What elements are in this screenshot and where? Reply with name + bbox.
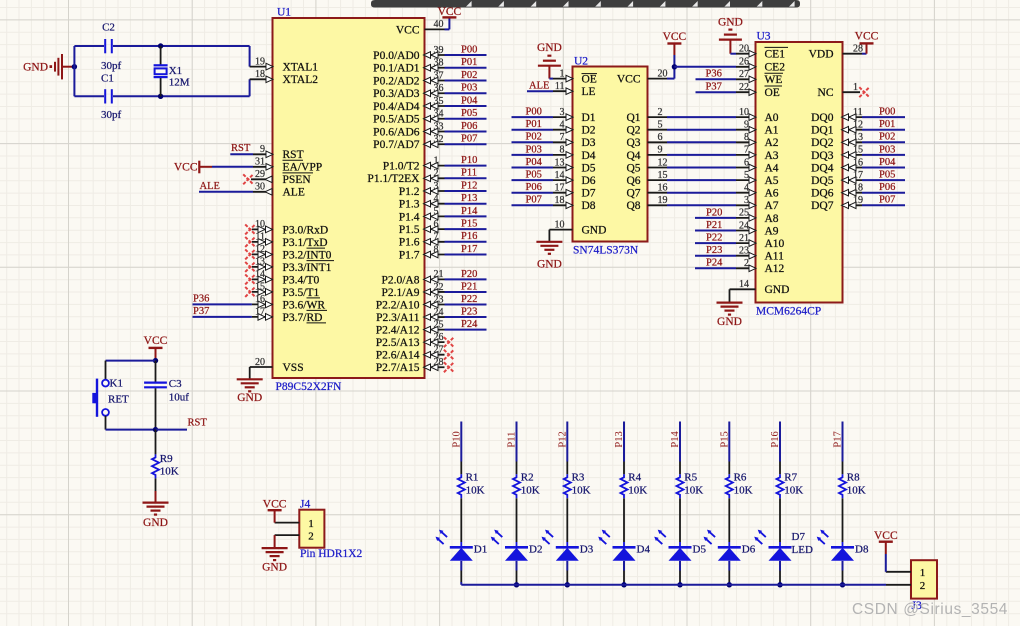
U2 pin 2 Q1 [626,107,667,124]
wire D3 to bus [566,561,568,585]
svg-text:P02: P02 [526,132,542,143]
svg-text:35: 35 [434,96,444,107]
wire R4 to D4 [623,498,625,547]
U1 pin 20 VSS [250,357,304,374]
wire VCC to U3 CE2 [674,66,736,68]
capacitor C1 30pf [101,73,122,122]
svg-text:12: 12 [853,120,863,131]
U1 pin 40 VCC [396,19,445,36]
svg-text:40: 40 [434,19,444,30]
svg-text:D5: D5 [582,162,596,174]
U1 pin 28 P2.7/A15 [376,357,445,374]
svg-text:P2.7/A15: P2.7/A15 [376,362,420,374]
U1 pin 19 XTAL1 [250,56,319,73]
U1 pin 15 P3.5/T1 [252,282,320,299]
svg-text:GND: GND [582,225,607,237]
net label P10 + wire [445,155,487,166]
resistor R3 10K [564,471,591,498]
net label P00 + wire (U2) [512,107,554,118]
net label P22 + wire [445,294,487,305]
svg-text:P03: P03 [879,144,895,155]
switch K1 RET [92,378,129,417]
svg-text:P05: P05 [461,108,477,119]
svg-text:D8: D8 [855,544,869,556]
net label P37 + wire (U3) [696,82,737,93]
U2 pin 9 Q4 [626,145,667,162]
net label P03 + wire (U2) [512,144,554,155]
U2 pin 17 D7 [553,183,596,200]
svg-text:10K: 10K [521,484,540,496]
svg-text:20: 20 [255,357,265,368]
U1 pin 3 P1.2 [399,181,445,198]
svg-text:P0.3/AD3: P0.3/AD3 [373,88,420,100]
wire LED bus [461,584,886,586]
U1 pin 25 P2.4/A12 [376,319,445,336]
connector J3 [911,560,937,612]
resistor R9 10K [152,453,179,478]
svg-text:28: 28 [434,357,444,368]
svg-text:19: 19 [658,195,668,206]
svg-text:P1.7: P1.7 [399,249,420,261]
wire GND to OE [549,66,553,79]
power port VCC (reset) [144,335,168,348]
svg-text:Q6: Q6 [626,175,640,187]
U1 pin 23 P2.2/A10 [376,294,445,311]
U1 pin 36 P0.3/AD3 [373,83,444,100]
wire column 4 top [623,422,625,475]
U3 pin 21 A10 [736,233,785,250]
svg-text:P23: P23 [461,306,477,317]
svg-text:4: 4 [560,120,565,131]
ground GND (U2 OE) [538,56,561,66]
svg-text:30pf: 30pf [101,60,122,72]
U2 pin 5 Q2 [626,120,667,137]
svg-text:P02: P02 [879,132,895,143]
svg-text:P06: P06 [526,182,542,193]
svg-text:CE2: CE2 [765,62,786,74]
svg-text:10K: 10K [847,484,866,496]
wire bottom to C1 [74,95,104,97]
svg-text:P06: P06 [879,182,895,193]
net label P05 + wire (U2) [512,170,554,181]
no-connect X (P3.1) [245,237,255,247]
svg-text:D2: D2 [582,125,596,137]
wire top to C2 [74,45,104,47]
svg-text:LE: LE [582,86,596,98]
svg-text:D3: D3 [582,137,596,149]
U1 pin 38 P0.1/AD1 [373,58,444,75]
svg-text:XTAL1: XTAL1 [283,62,319,74]
net label P20 + wire [445,269,487,280]
wire R9 to ground [155,478,157,491]
svg-text:P21: P21 [461,281,477,292]
U1 pin 39 P0.0/AD0 [373,45,444,62]
U3 pin 5 A5 [736,170,779,187]
U3 pin 1 NC [818,82,860,99]
net label P21 + wire (U3) [695,220,736,231]
capacitor C2 30pf [101,22,122,73]
LED D1 [436,530,488,561]
svg-text:13: 13 [255,257,265,268]
net label P07 + wire [445,134,487,145]
svg-text:D4: D4 [582,150,596,162]
svg-text:23: 23 [434,294,444,305]
svg-text:X1: X1 [169,65,182,77]
wire R2 to D2 [516,498,518,547]
svg-text:P04: P04 [461,95,478,106]
svg-text:2: 2 [308,530,314,542]
svg-text:5: 5 [744,170,749,181]
wire VCC stem [155,348,157,361]
svg-text:R8: R8 [847,471,860,483]
svg-text:22: 22 [434,282,444,293]
U3 pin 11 DQ0 [811,107,863,124]
net label P20 + wire (U3) [695,207,736,218]
svg-text:R2: R2 [521,471,534,483]
svg-text:10K: 10K [466,484,485,496]
wire to switch top [106,361,156,380]
svg-text:P20: P20 [461,269,477,280]
svg-text:R1: R1 [466,471,479,483]
svg-text:P07: P07 [879,195,895,206]
wire R1 to D1 [460,498,462,547]
U1 pin 22 P2.1/A9 [381,282,444,299]
U3 pin 7 A3 [736,145,779,162]
svg-text:19: 19 [255,56,265,67]
svg-text:4: 4 [434,194,439,205]
svg-text:Q2: Q2 [626,125,640,137]
svg-text:9: 9 [744,120,749,131]
svg-text:P06: P06 [461,121,477,132]
svg-text:28: 28 [853,44,863,55]
svg-text:GND: GND [537,259,562,271]
svg-text:Q3: Q3 [626,137,640,149]
svg-text:8: 8 [434,244,439,255]
svg-text:P0.5/AD5: P0.5/AD5 [373,114,420,126]
svg-text:P10: P10 [461,155,477,166]
svg-text:11: 11 [853,107,863,118]
svg-text:5: 5 [658,120,663,131]
svg-text:27: 27 [739,69,749,80]
junction node (GND / C leg) [72,64,77,69]
svg-text:10K: 10K [734,484,753,496]
svg-text:7: 7 [434,232,439,243]
wire D8 to bus [842,561,844,585]
svg-text:P3.6/WR: P3.6/WR [283,299,326,311]
svg-text:39: 39 [434,45,444,56]
wire Q5 to U3 A4 [667,167,736,169]
svg-text:P2.6/A14: P2.6/A14 [376,350,420,362]
svg-text:P89C52X2FN: P89C52X2FN [276,381,343,393]
U3 pin 13 DQ2 [811,132,863,149]
svg-text:22: 22 [739,82,749,93]
U3 pin 24 A9 [736,220,779,237]
svg-text:D3: D3 [580,544,594,556]
svg-text:25: 25 [434,319,444,330]
svg-text:A10: A10 [765,238,785,250]
svg-text:DQ7: DQ7 [811,200,834,212]
svg-text:P05: P05 [879,170,895,181]
wire VSS down [249,367,251,379]
J4 pin 2 [275,530,314,542]
svg-text:19: 19 [853,195,863,206]
net label P24 + wire (U3) [695,258,736,269]
svg-text:P1.2: P1.2 [399,186,420,198]
junction node (bus col 5) [677,582,682,587]
svg-text:P01: P01 [526,119,542,130]
LED D4 [598,530,650,561]
svg-text:GND: GND [23,62,48,74]
svg-text:13: 13 [555,157,565,168]
net label ALE + wire [199,181,253,192]
svg-text:P14: P14 [461,206,478,217]
svg-text:8: 8 [744,132,749,143]
svg-text:ALE: ALE [283,187,305,199]
svg-text:P0.7/AD7: P0.7/AD7 [373,139,420,151]
net label P03 + wire (U3 right) [862,144,905,155]
U3 pin 19 DQ7 [811,195,863,212]
wire C2 to crystal node [113,45,250,47]
svg-text:VCC: VCC [396,24,420,36]
svg-text:20: 20 [658,68,668,79]
svg-text:P1.1/T2EX: P1.1/T2EX [367,173,420,185]
dark toolbar strip [371,0,800,8]
svg-text:P07: P07 [526,195,542,206]
svg-text:24: 24 [434,307,444,318]
svg-text:VCC: VCC [144,335,168,347]
svg-text:26: 26 [739,57,749,68]
wire column 5 top [679,422,681,475]
net label P23 + wire [445,306,487,317]
net label P22 + wire (U3) [695,233,736,244]
svg-text:P23: P23 [706,245,722,256]
net label P05 + wire [445,108,487,119]
U1 pin 2 P1.1/T2EX [367,168,444,185]
svg-text:VCC: VCC [174,161,198,173]
wire left vertical [73,46,75,96]
svg-text:P3.7/RD: P3.7/RD [283,312,323,324]
svg-text:9: 9 [658,145,663,156]
U3 pin 8 A2 [736,132,779,149]
no-connect X (PSEN) [243,174,253,184]
svg-text:OE: OE [765,87,780,99]
svg-text:P22: P22 [706,233,722,244]
svg-text:D5: D5 [693,544,707,556]
svg-text:DQ2: DQ2 [811,137,834,149]
U1 pin 34 P0.5/AD5 [373,109,444,126]
U3 pin 20 CE1 [736,44,785,61]
U1 pin 11 P3.1/TxD [252,232,328,249]
net label P12 + wire [445,180,487,191]
svg-text:GND: GND [262,562,287,574]
svg-text:R3: R3 [572,471,585,483]
U1 pin 29 PSEN [251,169,311,186]
net label P06 + wire (U3 right) [862,182,905,193]
net label ALE + wire (U2) [527,81,553,92]
junction node (bus col 2) [514,582,519,587]
svg-text:16: 16 [255,294,265,305]
net label P02 + wire [445,70,487,81]
svg-text:P36: P36 [193,294,209,305]
U3 pin 15 DQ3 [811,145,863,162]
junction node (XTAL2 net) [158,94,163,99]
svg-text:24: 24 [739,220,749,231]
svg-text:P3.4/T0: P3.4/T0 [283,274,320,286]
svg-text:GND: GND [717,316,742,328]
net label P36 + wire (U3) [696,69,737,80]
ground GND (crystal) [23,54,74,79]
U1 pin 5 P1.4 [399,206,445,223]
wire VCC to J3.1 [885,542,887,572]
svg-text:27: 27 [434,345,444,356]
wire VCC riser [667,44,674,79]
no-connect X (P2.7) [444,362,454,372]
wire column 1 top [460,422,462,475]
svg-text:P2.1/A9: P2.1/A9 [381,287,419,299]
resistor R5 10K [677,471,704,498]
svg-text:17: 17 [555,183,565,194]
svg-text:DQ1: DQ1 [811,125,834,137]
wire D1 to bus [460,561,462,585]
svg-text:C2: C2 [102,22,115,34]
junction node (VCC net) [672,64,677,69]
U1 pin 35 P0.4/AD4 [373,96,444,113]
U1 pin 16 P3.6/WR [252,294,325,311]
svg-text:A2: A2 [765,137,779,149]
net label P02 + wire (U3 right) [862,132,905,143]
svg-text:U3: U3 [757,30,771,42]
svg-text:R5: R5 [684,471,697,483]
svg-text:A9: A9 [765,225,779,237]
svg-text:P07: P07 [461,134,477,145]
svg-text:P37: P37 [193,306,209,317]
svg-text:Q8: Q8 [626,200,640,212]
svg-text:CE1: CE1 [765,49,786,61]
svg-text:Pin HDR1X2: Pin HDR1X2 [300,548,363,560]
svg-text:DQ0: DQ0 [811,112,834,124]
net label RST + wire [230,143,253,154]
svg-text:15: 15 [853,145,863,156]
wire C1 to crystal node [113,95,250,97]
power port VCC (U1 pin40) [438,6,462,18]
svg-text:12: 12 [255,244,265,255]
svg-text:P17: P17 [461,244,477,255]
wire VCC to pin31 [212,166,253,168]
junction node (VCC/C3/K1) [153,358,158,363]
U2 OE overline [582,73,598,75]
net label P07 + wire (U2) [512,195,554,206]
svg-text:37: 37 [434,70,444,81]
svg-text:10K: 10K [784,484,803,496]
junction node (XTAL1 net) [158,43,163,48]
power port VCC (J4) [263,499,287,511]
U1 pin 13 P3.3/INT1 [252,257,332,274]
svg-text:15: 15 [658,170,668,181]
net label P01 + wire [445,57,487,68]
svg-text:P2.3/A11: P2.3/A11 [376,312,420,324]
U3 pin 25 A8 [736,208,779,225]
junction node (bus col 8) [840,582,845,587]
J3 pin 1 [886,567,925,579]
U1 pin 27 P2.6/A14 [376,345,445,362]
net label P01 + wire (U2) [512,119,554,130]
svg-text:R6: R6 [734,471,747,483]
svg-text:D7: D7 [582,188,596,200]
svg-text:GND: GND [765,284,790,296]
U2 pin 20 VCC [617,68,668,85]
svg-text:20: 20 [739,44,749,55]
net label P24 + wire [445,319,487,330]
no-connect X (NC) [859,87,869,97]
svg-text:P12: P12 [461,180,477,191]
svg-text:33: 33 [434,121,444,132]
P3 name overlines [307,248,335,323]
svg-text:P1.5: P1.5 [399,224,420,236]
wire Q7 to U3 A6 [667,192,736,194]
U2 pin 7 D3 [553,132,596,149]
wire D5 to bus [679,561,681,585]
svg-text:P03: P03 [526,144,542,155]
svg-text:P16: P16 [461,231,477,242]
svg-text:4: 4 [744,183,749,194]
svg-text:6: 6 [434,219,439,230]
svg-text:VCC: VCC [855,31,879,43]
svg-text:30pf: 30pf [101,109,122,121]
svg-text:PSEN: PSEN [283,174,312,186]
junction node (bus col 7) [777,582,782,587]
U3 pin 26 CE2 [736,57,785,74]
svg-text:P2.0/A8: P2.0/A8 [381,274,419,286]
U3 pin 17 DQ5 [811,170,863,187]
svg-text:DQ4: DQ4 [811,162,834,174]
svg-text:10K: 10K [684,484,703,496]
U3 CE/WE/OE overlines [765,47,789,86]
U1 pin 8 P1.7 [399,244,445,261]
svg-text:P1.4: P1.4 [399,211,420,223]
svg-text:6: 6 [658,132,663,143]
wire U2 GND down [548,230,550,242]
svg-text:P03: P03 [461,83,477,94]
svg-text:VDD: VDD [809,49,834,61]
op IC U3 MCM6264CP body [756,30,843,317]
svg-text:P37: P37 [706,82,722,93]
net label RST + wire (reset) [156,418,208,430]
svg-text:12: 12 [658,157,668,168]
U3 pin 6 A4 [736,157,779,174]
svg-text:P05: P05 [526,170,542,181]
wire R3 to D3 [566,498,568,547]
junction node (bus col 4) [621,582,626,587]
U1 pin 37 P0.2/AD2 [373,70,444,87]
net label P06 + wire (U2) [512,182,554,193]
wire D7 to bus [779,561,781,585]
no-connect X (P3.3) [245,262,255,272]
wire Q8 to U3 A7 [667,204,736,206]
svg-text:3: 3 [434,181,439,192]
svg-text:29: 29 [255,169,265,180]
svg-text:C3: C3 [169,378,182,390]
U1 pin 4 P1.3 [399,194,445,211]
svg-text:D2: D2 [529,544,542,556]
svg-text:17: 17 [853,170,863,181]
svg-text:VCC: VCC [263,499,287,511]
svg-text:1: 1 [560,68,565,79]
svg-text:P36: P36 [706,69,722,80]
wire column 6 top [728,422,730,475]
wire U3 GND down [729,289,731,302]
svg-text:2: 2 [920,580,926,592]
ground GND (U2) [536,242,562,254]
